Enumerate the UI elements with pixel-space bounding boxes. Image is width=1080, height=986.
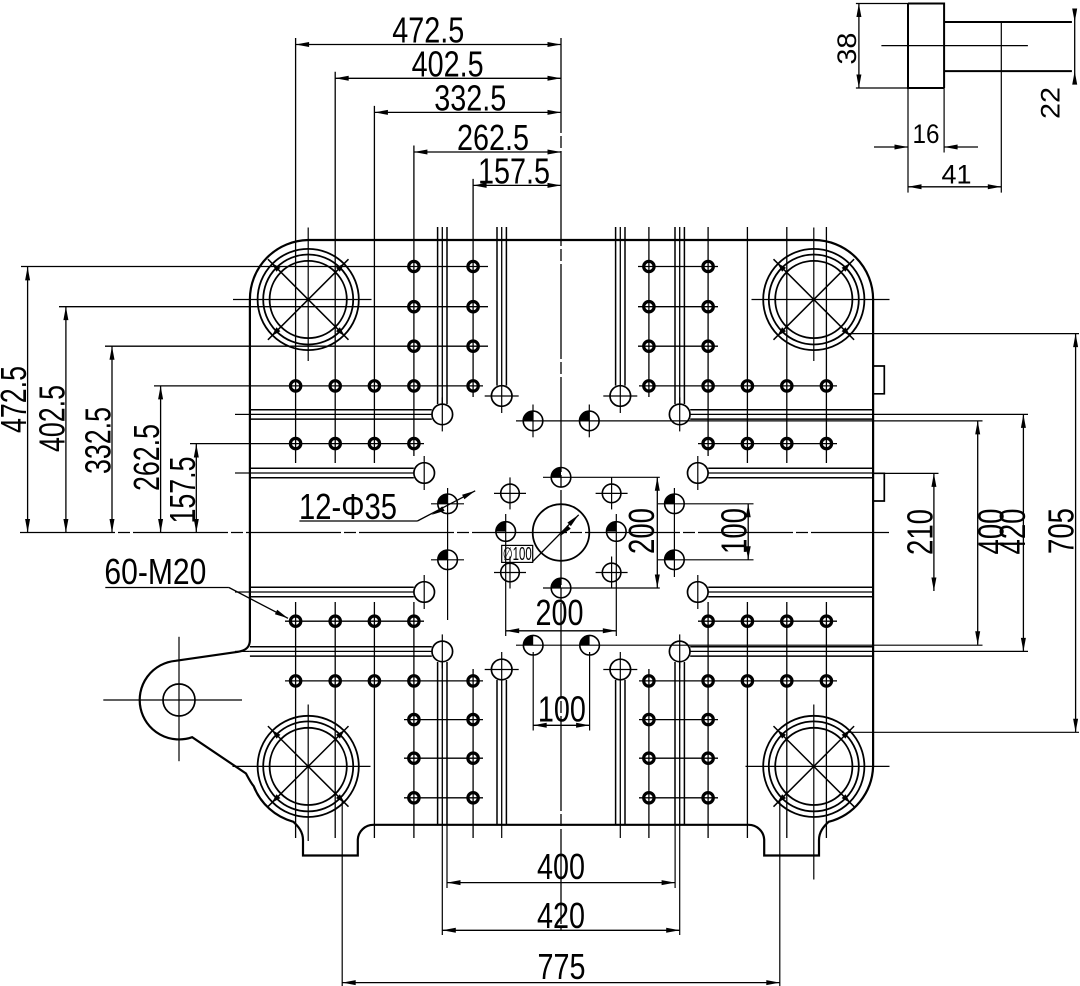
svg-text:400: 400 (537, 846, 585, 887)
svg-text:100: 100 (538, 689, 586, 730)
vertical T-slot right-outer, top segment (674, 227, 676, 404)
horizontal T-slot upper-inner, right segment (708, 467, 873, 469)
svg-text:332.5: 332.5 (434, 78, 506, 119)
svg-text:41: 41 (942, 160, 972, 190)
dimension 262.5 left (160, 386, 162, 533)
dimension 402.5 top (335, 77, 561, 79)
dimension 775 bottom (341, 801, 343, 986)
slot end circle (414, 582, 435, 603)
slot end circle (610, 386, 631, 407)
plate vertical centerline (560, 38, 562, 931)
Phi35 hole centerlines (543, 476, 660, 478)
bolt-grid row lines, left half (also dimension extension lines) (21, 266, 488, 268)
svg-text:∅100: ∅100 (503, 544, 532, 564)
tie-bar centerlines (233, 299, 372, 301)
dimension 332.5 top (374, 111, 561, 113)
dimension 200 horizontal below bore (506, 630, 617, 632)
bolt-grid row lines, right half (638, 266, 718, 268)
Phi35 hole far-left upper (438, 494, 458, 514)
vertical T-slot left-inner, bottom segment (496, 680, 498, 825)
tie-bar hole bottom-right: X diagonals (774, 726, 855, 807)
dimension 420 right (873, 413, 1028, 415)
Phi35 hole upper pair right (580, 411, 600, 431)
boxed label Phi100 with leader (502, 545, 533, 562)
dimension 262.5 top (414, 151, 561, 153)
horizontal T-slot lower-inner, left segment (250, 586, 414, 588)
svg-text:157.5: 157.5 (478, 151, 550, 192)
dimension 332.5 left (111, 346, 113, 532)
Phi35 hole lower pair right (580, 635, 600, 655)
vertical T-slot right-inner, bottom segment (615, 680, 617, 825)
slot centerline stub below edge (501, 825, 503, 838)
central locating bore (Phi100) (533, 504, 590, 561)
Phi35 hole far-right lower (665, 550, 685, 570)
tie-bar hole top-left: concentric circles (270, 261, 347, 338)
horizontal T-slot upper-outer, right segment (690, 409, 873, 411)
bolt-grid column lines, top-right (648, 227, 650, 397)
dimension 210 right (873, 472, 938, 474)
dimension 400 right (977, 421, 979, 645)
plate horizontal centerline (20, 532, 889, 534)
slot end circle (669, 404, 690, 425)
horizontal T-slot upper-inner, left segment (250, 467, 414, 469)
Phi35 hole far-right upper (665, 494, 685, 514)
svg-text:100: 100 (714, 508, 755, 554)
detail outline (908, 4, 1072, 89)
svg-text:16: 16 (913, 119, 940, 149)
svg-text:420: 420 (537, 895, 585, 936)
vertical T-slot right-inner, top segment (615, 227, 617, 386)
svg-text:420: 420 (992, 509, 1033, 555)
svg-text:200: 200 (621, 508, 662, 554)
svg-text:22: 22 (1036, 87, 1066, 119)
vertical T-slot left-inner, top segment (496, 227, 498, 386)
svg-text:60-M20: 60-M20 (104, 551, 206, 592)
slot end circle (432, 404, 453, 425)
dimension 705 right (848, 333, 1079, 335)
Phi35 hole bottom center (551, 578, 571, 598)
svg-text:38: 38 (832, 33, 862, 65)
bolt-grid column lines, bottom-left (295, 602, 297, 838)
horizontal T-slot lower-inner, right segment (708, 586, 873, 588)
tie-bar hole top-right: diagonal arrow marks (777, 263, 786, 272)
vertical T-slot right-outer, bottom segment (674, 662, 676, 825)
slot end circle (688, 582, 709, 603)
svg-text:402.5: 402.5 (31, 385, 72, 452)
detail centerline (881, 45, 1028, 47)
slot end circle (688, 463, 709, 484)
dimension 400 bottom (446, 825, 448, 888)
lug hole vertical centerline (178, 637, 180, 761)
horizontal T-slot lower-outer, right segment (690, 646, 873, 648)
tie-bar hole top-left: diagonal arrow marks (272, 263, 281, 272)
four dowel/crosshair circles around bore (501, 484, 520, 503)
horizontal T-slot lower-outer, left segment (250, 646, 432, 648)
dimension 402.5 left (65, 307, 67, 533)
dimension 472.5 top (296, 44, 561, 46)
slot end circle (432, 641, 453, 662)
dimension 420 bottom (441, 825, 443, 935)
tie-bar hole top-right: concentric circles (775, 261, 852, 338)
slot end circle (491, 659, 512, 680)
bolt-grid row lines, bottom-left (285, 620, 424, 622)
lifting lug hole (163, 684, 195, 716)
slot end circle (491, 386, 512, 407)
tie-bar hole bottom-right: concentric circles (775, 728, 852, 805)
tie-bar hole bottom-right: diagonal arrow marks (777, 730, 786, 739)
detail dimension 22 (1074, 9, 1076, 83)
upper key tab on right edge (873, 366, 884, 394)
Phi35 hole right of bore (607, 522, 627, 542)
svg-text:332.5: 332.5 (78, 407, 119, 474)
dimension 200 vertical near center (656, 477, 658, 588)
svg-text:157.5: 157.5 (162, 457, 203, 524)
vertical T-slot left-outer, top segment (437, 227, 439, 404)
dimension 100 bottom center (533, 724, 589, 726)
horizontal T-slot upper-outer, left segment (250, 409, 432, 411)
detail dimension 38 (856, 3, 908, 5)
lower key tab on right edge (873, 473, 884, 501)
vertical T-slot left-outer, bottom segment (437, 662, 439, 825)
Phi35 hole top center (551, 468, 571, 488)
bolt-grid column lines, top-left (also top dim extension lines) (295, 38, 297, 463)
dimension 100 right-middle (747, 504, 749, 560)
dimension 157.5 top (473, 184, 561, 186)
bolt-grid row lines, bottom-right (698, 620, 837, 622)
tie-bar hole top-left: X diagonals (268, 259, 349, 340)
slot end circle (414, 463, 435, 484)
slot end circle (610, 659, 631, 680)
bolt-grid column lines, bottom-right (648, 669, 650, 838)
lug hole horizontal centerline (103, 699, 242, 701)
Phi35 hole upper pair left (523, 411, 543, 431)
svg-text:210: 210 (899, 509, 940, 555)
Phi35 hole lower pair left (523, 635, 543, 655)
Phi35 hole left of bore (496, 522, 516, 542)
tie-bar hole bottom-left: diagonal arrow marks (272, 730, 281, 739)
tie-bar hole top-right: X diagonals (774, 259, 855, 340)
tie-bar hole bottom-left: concentric circles (270, 728, 347, 805)
svg-text:472.5: 472.5 (0, 366, 34, 433)
T-slot centerline stubs beyond left edge (235, 413, 250, 415)
60-M20 tapped holes (409, 261, 419, 271)
detail dimension 16 (907, 88, 909, 153)
dimension 472.5 left (27, 267, 29, 533)
svg-text:200: 200 (536, 592, 584, 633)
svg-text:775: 775 (538, 946, 586, 986)
svg-text:705: 705 (1040, 508, 1080, 554)
dimension 157.5 left (195, 444, 197, 533)
slot end circle (669, 641, 690, 662)
detail dimension 41 (1000, 22, 1002, 193)
tie-bar hole bottom-left: X diagonals (268, 726, 349, 807)
platen plate outline with corner arcs, feet and lifting lug (140, 240, 873, 856)
Phi35 hole far-left lower (438, 550, 458, 570)
